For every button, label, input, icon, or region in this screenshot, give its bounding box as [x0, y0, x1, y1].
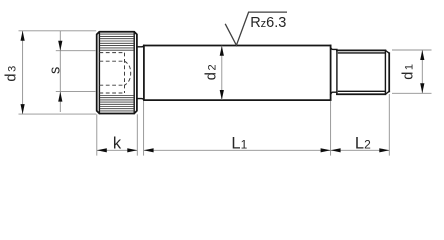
- knurling lower band: [100, 96, 134, 111]
- neck under head bottom: [137, 99, 144, 100]
- thread chamfer start line: [384, 50, 386, 94]
- thread end chamfer bottom: [385, 91, 389, 94]
- thread crest bottom: [337, 93, 386, 95]
- dimension d3: [3, 31, 96, 114]
- socket depth line: [124, 53, 126, 93]
- shoulder bottom line: [144, 99, 331, 101]
- extension line L1 left: [143, 101, 145, 156]
- dimension L1: [144, 134, 331, 152]
- socket drill cone arc: [125, 61, 131, 85]
- extension line L2 right: [388, 94, 390, 156]
- hidden hex socket dashed lines: [99, 53, 130, 93]
- svg-text:Rz6.3: Rz6.3: [250, 15, 286, 31]
- svg-text:L1: L1: [231, 134, 247, 152]
- dimension d1: [392, 50, 432, 93]
- thread relief neck top: [331, 47, 337, 49]
- head left chamfer line: [98, 32, 100, 114]
- svg-text:d3: d3: [3, 64, 19, 81]
- extension line k left: [96, 114, 98, 155]
- thread root bottom: [339, 90, 386, 92]
- shoulder right face: [330, 46, 332, 101]
- svg-text:k: k: [113, 134, 122, 152]
- svg-text:s: s: [47, 65, 63, 74]
- extension line L1 right / L2 left: [330, 101, 332, 156]
- thread root top: [339, 52, 386, 54]
- knurling upper band: [100, 34, 134, 50]
- head right chamfer line: [133, 32, 135, 114]
- svg-text:d2: d2: [204, 63, 220, 80]
- dimension s: [47, 31, 95, 112]
- thread start face: [336, 50, 338, 94]
- thread crest top: [337, 49, 386, 51]
- shoulder left face: [143, 46, 145, 101]
- dimension d2: [204, 46, 224, 100]
- svg-text:d1: d1: [401, 62, 417, 79]
- thread end chamfer top: [385, 50, 389, 53]
- knurled head outline: [97, 32, 137, 114]
- thread end face: [388, 53, 390, 91]
- thread relief neck bottom: [331, 92, 337, 95]
- shoulder top line: [144, 45, 331, 47]
- dimension k: [97, 134, 138, 152]
- surface finish symbol Rz6.3: [225, 12, 287, 45]
- neck under head top: [137, 46, 144, 47]
- dimension L2: [331, 134, 390, 152]
- svg-text:L2: L2: [355, 134, 371, 152]
- extension line k right: [136, 114, 138, 155]
